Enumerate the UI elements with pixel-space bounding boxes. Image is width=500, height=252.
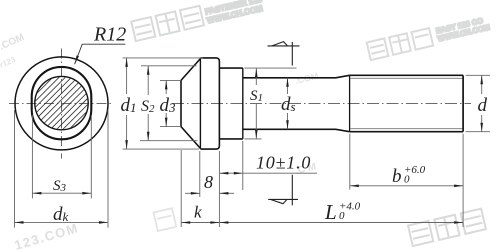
outer circle dk	[15, 57, 108, 150]
square section S1 bottom	[219, 138, 242, 140]
svg-text:b: b	[392, 166, 402, 187]
thread minor top	[351, 77, 464, 79]
svg-text:k: k	[194, 203, 202, 222]
thread major bottom	[350, 131, 464, 133]
watermark upper-right	[367, 15, 491, 60]
svg-text:0: 0	[404, 174, 410, 186]
watermark top-center	[131, 0, 265, 42]
head left face	[180, 80, 182, 126]
dimension S1	[245, 67, 297, 69]
shank top	[243, 75, 350, 78]
horizontal centerline of head view	[9, 102, 114, 104]
svg-text:d: d	[478, 95, 488, 116]
dimension d3	[160, 79, 181, 81]
dimension k	[180, 150, 182, 227]
shank bottom	[243, 129, 350, 131]
bolt end face	[462, 75, 464, 131]
thread minor bottom	[351, 128, 464, 130]
svg-text:8: 8	[204, 172, 213, 192]
dimension 8	[199, 151, 201, 197]
thread major top	[350, 74, 464, 76]
surface finish symbol top	[268, 42, 300, 66]
dimension S3	[31, 115, 33, 198]
square section S1 top	[219, 67, 242, 69]
watermark faint mid-left bottom	[154, 208, 177, 231]
vertical centerline of head view	[61, 49, 63, 159]
dimension b	[349, 134, 351, 190]
dimension 10±1.0	[242, 141, 244, 190]
dimension d	[466, 74, 490, 76]
hatched circle (shank seen from front)	[35, 76, 88, 129]
svg-text:0: 0	[339, 210, 345, 222]
main axis centerline	[172, 102, 471, 104]
thread start line	[349, 75, 351, 131]
head cone top	[181, 59, 200, 81]
svg-text:L: L	[324, 200, 337, 224]
dimension ds	[287, 78, 289, 94]
watermark bottom-right corner	[408, 209, 486, 246]
svg-text:R12: R12	[93, 24, 126, 46]
leader R12	[75, 44, 126, 64]
d1 flange outline	[200, 58, 219, 149]
square-shank step face	[242, 68, 244, 139]
dimension L	[462, 134, 464, 227]
hatching	[20, 12, 112, 197]
cone-cylinder junction	[199, 58, 201, 149]
dimension d1	[123, 57, 203, 59]
surface finish symbol bottom	[268, 175, 298, 206]
rounded square S3 (stadium, corner R12)	[32, 67, 92, 139]
dimension dk	[14, 110, 16, 228]
dimension S2	[141, 65, 197, 67]
head cone bottom	[181, 127, 200, 149]
svg-text:10±1.0: 10±1.0	[256, 153, 311, 173]
